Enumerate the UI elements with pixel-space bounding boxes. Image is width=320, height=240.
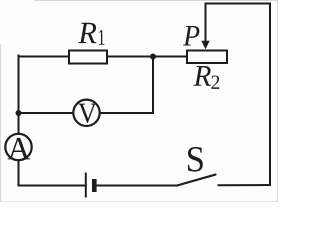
label R1 subscript 1 bbox=[99, 30, 105, 45]
label S bbox=[188, 147, 203, 172]
node junction dot left voltmeter tap bbox=[16, 110, 22, 116]
wire top-right horizontal bbox=[206, 3, 271, 5]
voltmeter circle bbox=[73, 100, 99, 126]
label P bbox=[183, 26, 199, 45]
battery long thin plate bbox=[85, 173, 87, 198]
resistor R2 rheostat body bbox=[187, 51, 227, 64]
label R2 subscript 2 bbox=[211, 76, 219, 89]
switch S blade bbox=[177, 175, 216, 186]
slider arrowhead P bbox=[201, 41, 209, 50]
battery short thick plate bbox=[92, 179, 97, 192]
wire top-left horizontal bbox=[19, 56, 71, 58]
label R1 letter R bbox=[78, 23, 96, 43]
wire R1 to R2 horizontal bbox=[106, 56, 188, 58]
wire right vertical bbox=[269, 4, 271, 186]
ammeter circle bbox=[5, 134, 31, 160]
wire slider arm vertical bbox=[205, 4, 207, 42]
wire voltmeter branch horizontal bbox=[19, 112, 154, 114]
node junction dot right of R1 bbox=[150, 54, 156, 60]
wire bottom-left to battery bbox=[19, 185, 86, 187]
wire below ammeter bbox=[18, 160, 20, 186]
wire battery to switch pivot bbox=[97, 185, 178, 187]
voltmeter letter V bbox=[78, 104, 96, 123]
ammeter letter A bbox=[8, 138, 31, 159]
wire switch contact to bottom-right corner bbox=[219, 184, 271, 186]
scan edge border (partial, faint) bbox=[34, 0, 278, 2]
resistor R1 bbox=[69, 51, 107, 64]
wire left vertical bbox=[18, 56, 20, 135]
label R2 letter R bbox=[194, 66, 211, 86]
wire junction vertical down to voltmeter branch bbox=[152, 57, 154, 114]
